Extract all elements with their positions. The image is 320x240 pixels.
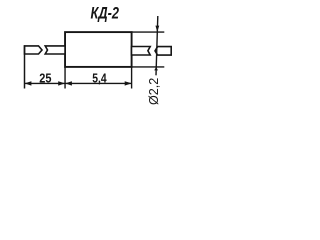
left lead inner segment (break notch)	[45, 46, 65, 54]
svg-text:Ø2,2: Ø2,2	[147, 78, 161, 105]
vertical dimension line diameter	[156, 16, 158, 75]
svg-text:25: 25	[39, 71, 52, 86]
arrow right of dim 25	[58, 81, 65, 85]
dimension line 25	[25, 82, 66, 84]
arrow right of dim 5,4	[125, 81, 132, 85]
svg-text:5,4: 5,4	[92, 71, 107, 86]
arrow left of dim 5,4	[65, 81, 72, 85]
svg-text:КД-2: КД-2	[91, 4, 120, 23]
right lead outer segment	[155, 47, 171, 56]
extension line body right	[131, 67, 133, 89]
arrow up to body-bottom reference line	[154, 67, 158, 70]
extension line left lead end	[24, 45, 26, 88]
arrow left of dim 25	[25, 81, 32, 85]
arrow down to body-top reference line	[155, 26, 159, 32]
dimension line 5,4	[65, 82, 132, 84]
body (diode package outline)	[65, 32, 132, 67]
right lead inner segment (break notch)	[132, 47, 151, 56]
extension line from body bottom-right	[132, 66, 165, 68]
extension line from body top-right	[132, 31, 165, 33]
extension line body left	[64, 67, 66, 89]
left lead outer segment	[25, 46, 43, 54]
